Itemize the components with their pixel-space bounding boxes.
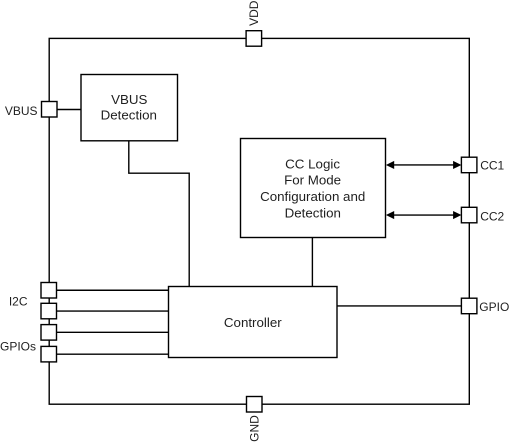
svg-text:CC Logic: CC Logic <box>285 156 340 171</box>
svg-text:Detection: Detection <box>285 205 341 220</box>
svg-text:VBUS: VBUS <box>111 92 147 107</box>
svg-text:VBUS: VBUS <box>5 104 38 118</box>
svg-text:VDD: VDD <box>247 0 261 26</box>
svg-text:GND: GND <box>248 415 262 442</box>
svg-text:Controller: Controller <box>224 315 282 330</box>
svg-text:GPIOs: GPIOs <box>0 339 36 353</box>
svg-text:For Mode: For Mode <box>284 173 341 188</box>
svg-text:Detection: Detection <box>101 108 157 123</box>
svg-text:CC2: CC2 <box>480 209 504 223</box>
svg-text:Configuration and: Configuration and <box>260 189 365 204</box>
svg-text:I2C: I2C <box>9 294 28 308</box>
svg-text:GPIO: GPIO <box>479 300 509 314</box>
svg-text:CC1: CC1 <box>480 158 504 172</box>
